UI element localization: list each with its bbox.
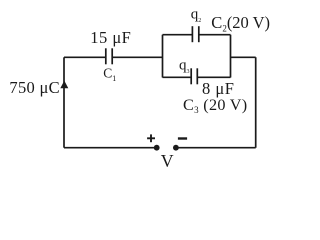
wire box right vertical	[230, 35, 232, 78]
wire bottom right (battery - side)	[176, 147, 256, 149]
wire C1 to parallel box	[112, 56, 162, 58]
svg-text:q2: q2	[191, 7, 202, 24]
wire top branch left	[163, 34, 193, 36]
wire bottom branch left	[163, 76, 192, 78]
svg-text:q3: q3	[179, 58, 190, 75]
wire top-left horizontal (node between battery + and C1)	[64, 56, 106, 58]
capacitor C2 plates	[192, 26, 198, 42]
svg-text:C1: C1	[103, 65, 116, 82]
wire box left vertical	[162, 35, 164, 78]
svg-text:C2(20 V): C2(20 V)	[211, 13, 270, 33]
capacitor C1 plates	[106, 48, 112, 64]
battery terminal dot -	[173, 145, 179, 151]
wire right vertical	[255, 57, 257, 147]
wire bottom branch right	[197, 76, 230, 78]
wire bottom left (battery + side)	[64, 147, 157, 149]
battery plus sign	[147, 134, 155, 142]
svg-text:V: V	[161, 151, 174, 171]
current direction arrowhead on left wire	[60, 81, 68, 89]
wire box to right corner	[231, 56, 256, 58]
capacitor C3 plates	[191, 68, 197, 84]
svg-text:C3 (20 V): C3 (20 V)	[183, 96, 247, 115]
wire top branch right	[199, 34, 231, 36]
battery minus sign	[178, 137, 187, 139]
wire left vertical	[63, 57, 65, 147]
svg-text:750 μC: 750 μC	[9, 78, 60, 97]
svg-text:15 μF: 15 μF	[90, 28, 131, 47]
battery terminal dot +	[154, 145, 160, 151]
